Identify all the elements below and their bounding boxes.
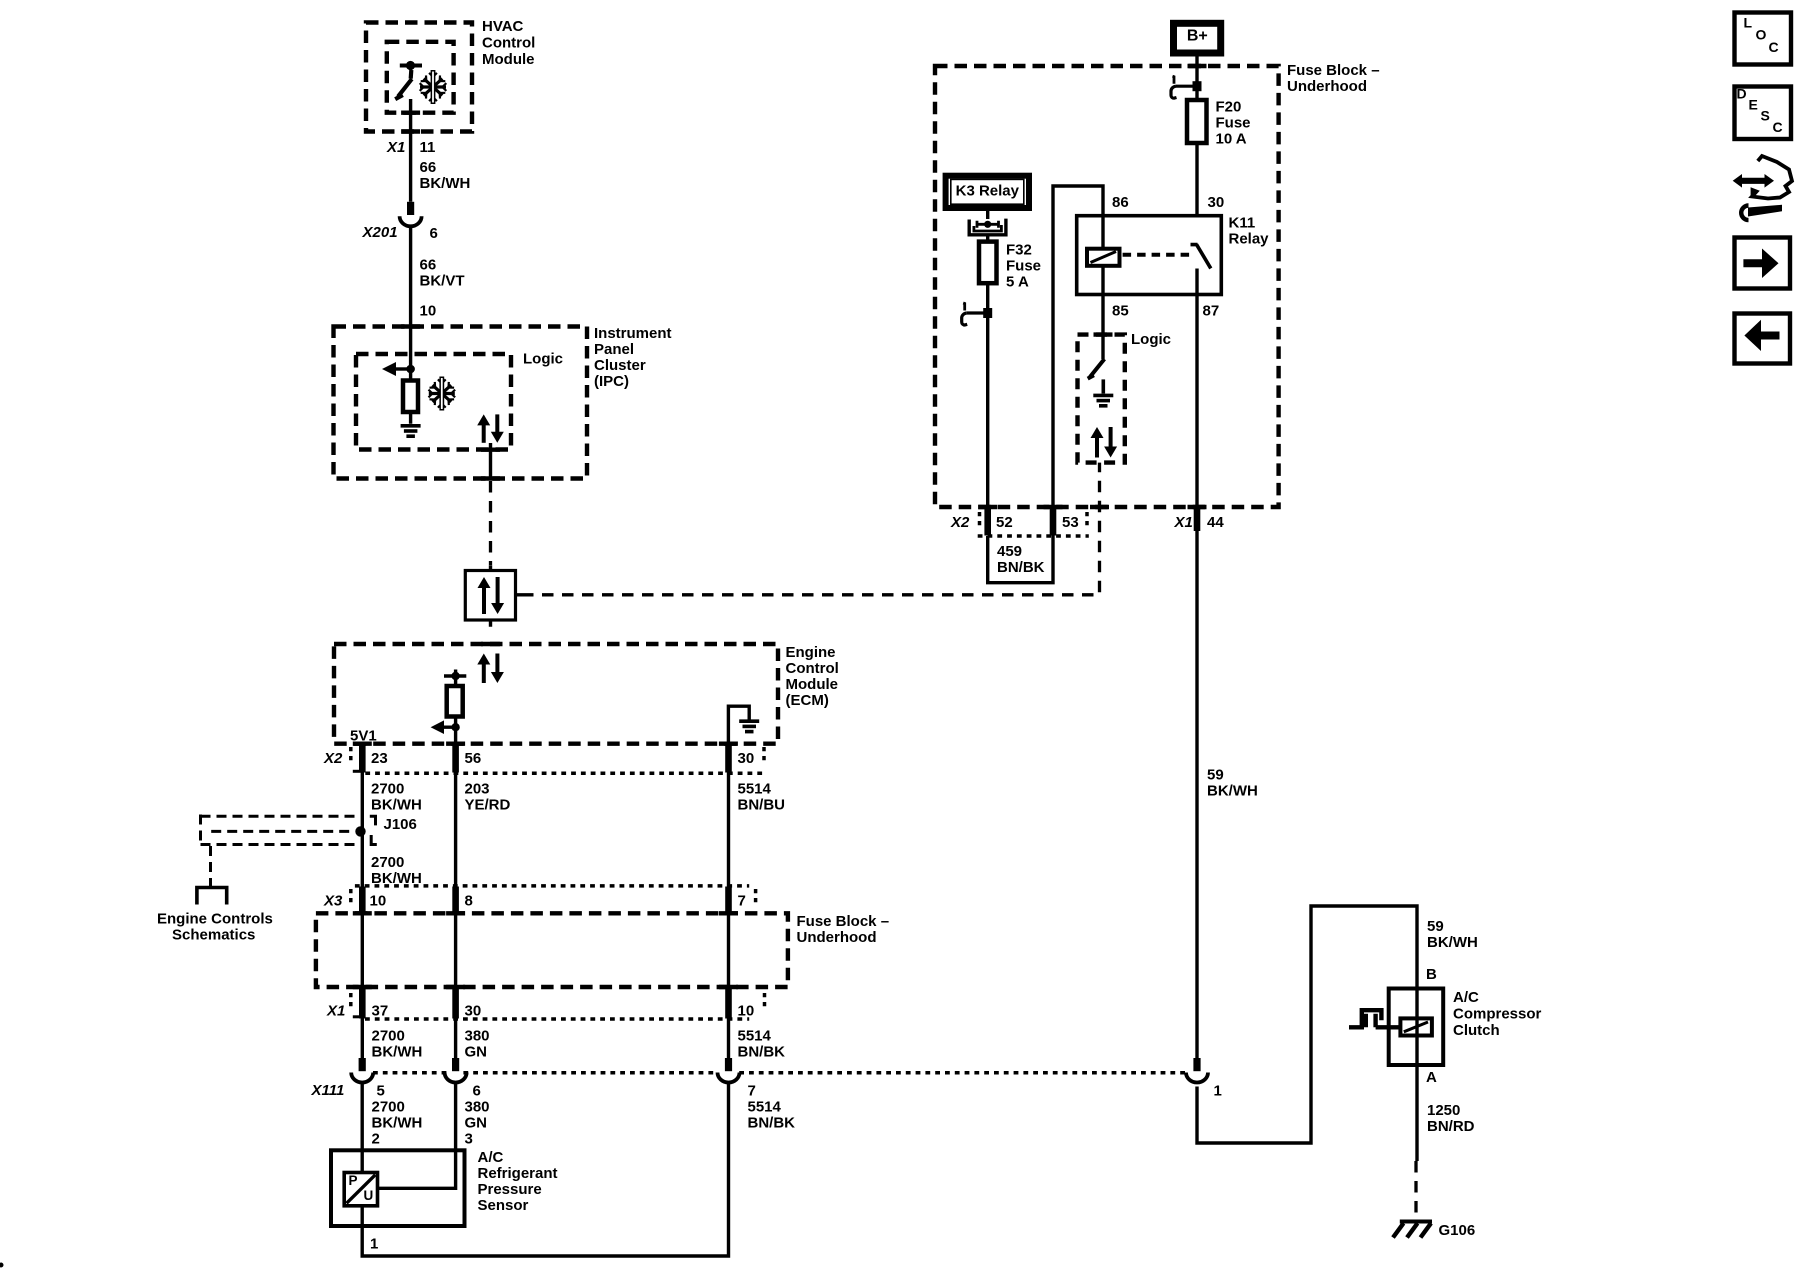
svg-text:85: 85	[1112, 302, 1129, 319]
svg-text:59: 59	[1427, 918, 1444, 935]
svg-text:BN/RD: BN/RD	[1427, 1118, 1475, 1135]
svg-text:Compressor: Compressor	[1453, 1006, 1542, 1023]
svg-text:3: 3	[465, 1131, 473, 1148]
svg-text:BK/WH: BK/WH	[372, 1044, 423, 1061]
svg-text:BK/WH: BK/WH	[371, 797, 422, 814]
svg-text:Engine: Engine	[786, 644, 836, 661]
svg-text:YE/RD: YE/RD	[465, 797, 511, 814]
svg-text:BK/WH: BK/WH	[1427, 934, 1478, 951]
svg-text:BN/BK: BN/BK	[997, 559, 1045, 576]
svg-text:HVAC: HVAC	[482, 18, 524, 35]
svg-text:(IPC): (IPC)	[594, 373, 629, 390]
svg-text:30: 30	[1208, 194, 1225, 211]
svg-text:37: 37	[372, 1003, 389, 1020]
svg-text:X1: X1	[326, 1003, 345, 1020]
svg-text:X3: X3	[323, 893, 343, 910]
svg-text:56: 56	[465, 750, 482, 767]
svg-text:87: 87	[1203, 302, 1220, 319]
svg-text:F32: F32	[1006, 241, 1032, 258]
svg-text:B: B	[1426, 966, 1437, 983]
svg-text:1250: 1250	[1427, 1102, 1460, 1119]
svg-text:1: 1	[370, 1236, 378, 1253]
svg-text:Module: Module	[786, 676, 839, 693]
svg-text:2700: 2700	[372, 1028, 405, 1045]
svg-text:D: D	[1737, 86, 1747, 102]
svg-text:X1: X1	[1174, 514, 1193, 531]
svg-text:Sensor: Sensor	[478, 1197, 529, 1214]
svg-text:66: 66	[420, 256, 437, 273]
svg-text:2700: 2700	[371, 854, 404, 871]
svg-text:2700: 2700	[371, 781, 404, 798]
svg-text:11: 11	[420, 139, 436, 156]
svg-text:66: 66	[420, 159, 437, 176]
svg-text:BK/WH: BK/WH	[372, 1115, 423, 1132]
svg-text:380: 380	[465, 1099, 490, 1116]
svg-text:A/C: A/C	[1453, 989, 1479, 1006]
svg-text:X1: X1	[386, 139, 405, 156]
svg-text:G106: G106	[1439, 1222, 1476, 1239]
svg-text:52: 52	[996, 514, 1013, 531]
svg-text:BK/WH: BK/WH	[371, 870, 422, 887]
svg-text:X2: X2	[950, 514, 970, 531]
svg-text:53: 53	[1062, 514, 1079, 531]
svg-text:Control: Control	[786, 660, 839, 677]
svg-text:U: U	[364, 1188, 374, 1203]
svg-text:8: 8	[465, 893, 473, 910]
svg-text:X111: X111	[311, 1082, 345, 1099]
svg-text:10: 10	[420, 302, 437, 319]
svg-text:C: C	[1773, 119, 1783, 135]
svg-text:6: 6	[430, 225, 438, 242]
svg-text:Panel: Panel	[594, 341, 634, 358]
svg-text:459: 459	[997, 543, 1022, 560]
svg-text:23: 23	[371, 750, 388, 767]
svg-text:10: 10	[738, 1003, 755, 1020]
svg-text:J106: J106	[384, 816, 417, 833]
svg-text:Fuse: Fuse	[1006, 257, 1041, 274]
svg-text:Engine Controls: Engine Controls	[157, 911, 273, 928]
svg-text:BN/BU: BN/BU	[738, 797, 786, 814]
svg-text:5514: 5514	[748, 1099, 782, 1116]
svg-text:6: 6	[473, 1083, 481, 1100]
svg-text:GN: GN	[465, 1044, 488, 1061]
svg-text:GN: GN	[465, 1115, 488, 1132]
svg-text:Pressure: Pressure	[478, 1181, 542, 1198]
svg-text:C: C	[1769, 39, 1779, 55]
svg-text:59: 59	[1207, 767, 1224, 784]
svg-text:5: 5	[377, 1083, 385, 1100]
svg-text:Fuse Block –: Fuse Block –	[1287, 62, 1380, 79]
svg-text:Fuse Block –: Fuse Block –	[797, 913, 890, 930]
svg-text:Logic: Logic	[1131, 331, 1171, 348]
svg-text:BN/BK: BN/BK	[748, 1115, 796, 1132]
svg-text:(ECM): (ECM)	[786, 692, 829, 709]
svg-text:S: S	[1761, 108, 1770, 124]
svg-text:X201: X201	[362, 224, 398, 241]
svg-text:Cluster: Cluster	[594, 357, 646, 374]
svg-text:Module: Module	[482, 51, 535, 68]
svg-text:5514: 5514	[738, 1028, 772, 1045]
svg-text:5514: 5514	[738, 781, 772, 798]
svg-text:F20: F20	[1216, 99, 1242, 116]
svg-text:O: O	[1756, 27, 1767, 43]
svg-text:K11: K11	[1229, 214, 1256, 231]
svg-text:K3 Relay: K3 Relay	[956, 182, 1020, 199]
svg-text:86: 86	[1112, 194, 1129, 211]
svg-text:5V1: 5V1	[350, 728, 377, 745]
svg-text:BK/VT: BK/VT	[420, 272, 465, 289]
svg-text:A/C: A/C	[478, 1149, 504, 1166]
svg-text:380: 380	[465, 1028, 490, 1045]
svg-text:2: 2	[372, 1131, 380, 1148]
svg-text:Underhood: Underhood	[1287, 78, 1367, 95]
svg-text:Fuse: Fuse	[1216, 115, 1251, 132]
svg-text:10 A: 10 A	[1216, 130, 1247, 147]
svg-text:BK/WH: BK/WH	[420, 175, 471, 192]
svg-text:BN/BK: BN/BK	[738, 1044, 786, 1061]
svg-text:Clutch: Clutch	[1453, 1022, 1500, 1039]
svg-text:Schematics: Schematics	[172, 927, 255, 944]
svg-text:L: L	[1744, 15, 1753, 31]
svg-text:30: 30	[465, 1003, 482, 1020]
svg-text:Refrigerant: Refrigerant	[478, 1165, 558, 1182]
svg-text:30: 30	[738, 750, 755, 767]
svg-text:Control: Control	[482, 35, 535, 52]
svg-text:5 A: 5 A	[1006, 273, 1029, 290]
svg-text:B+: B+	[1187, 28, 1208, 45]
svg-text:Instrument: Instrument	[594, 325, 672, 342]
svg-text:P: P	[349, 1173, 358, 1188]
svg-text:BK/WH: BK/WH	[1207, 783, 1258, 800]
svg-text:Underhood: Underhood	[797, 929, 877, 946]
svg-text:E: E	[1749, 97, 1758, 113]
svg-text:7: 7	[748, 1083, 756, 1100]
svg-text:A: A	[1426, 1069, 1437, 1086]
svg-text:X2: X2	[323, 750, 343, 767]
svg-text:Relay: Relay	[1229, 230, 1270, 247]
svg-text:2700: 2700	[372, 1099, 405, 1116]
svg-text:Logic: Logic	[523, 350, 563, 367]
svg-text:1: 1	[1214, 1083, 1222, 1100]
svg-text:7: 7	[738, 893, 746, 910]
svg-text:10: 10	[370, 893, 387, 910]
svg-text:44: 44	[1207, 514, 1224, 531]
svg-text:203: 203	[465, 781, 490, 798]
